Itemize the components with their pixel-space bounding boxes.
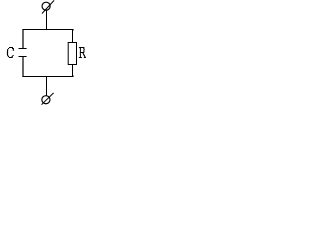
wire capacitor bottom lead	[22, 57, 24, 78]
label R (resistor)	[79, 47, 86, 58]
wire capacitor top lead	[22, 29, 24, 49]
terminal T1 (top, circle with slash)	[42, 0, 54, 13]
wire top terminal to top rail	[46, 10, 48, 30]
wire bottom rail to bottom terminal	[46, 77, 48, 96]
wire bottom rail	[22, 65, 73, 77]
wire top rail	[22, 30, 73, 43]
resistor R1	[68, 43, 76, 65]
terminal T2 (bottom, circle with slash)	[42, 93, 54, 105]
label C (capacitor)	[7, 47, 14, 58]
capacitor C1	[19, 49, 27, 57]
